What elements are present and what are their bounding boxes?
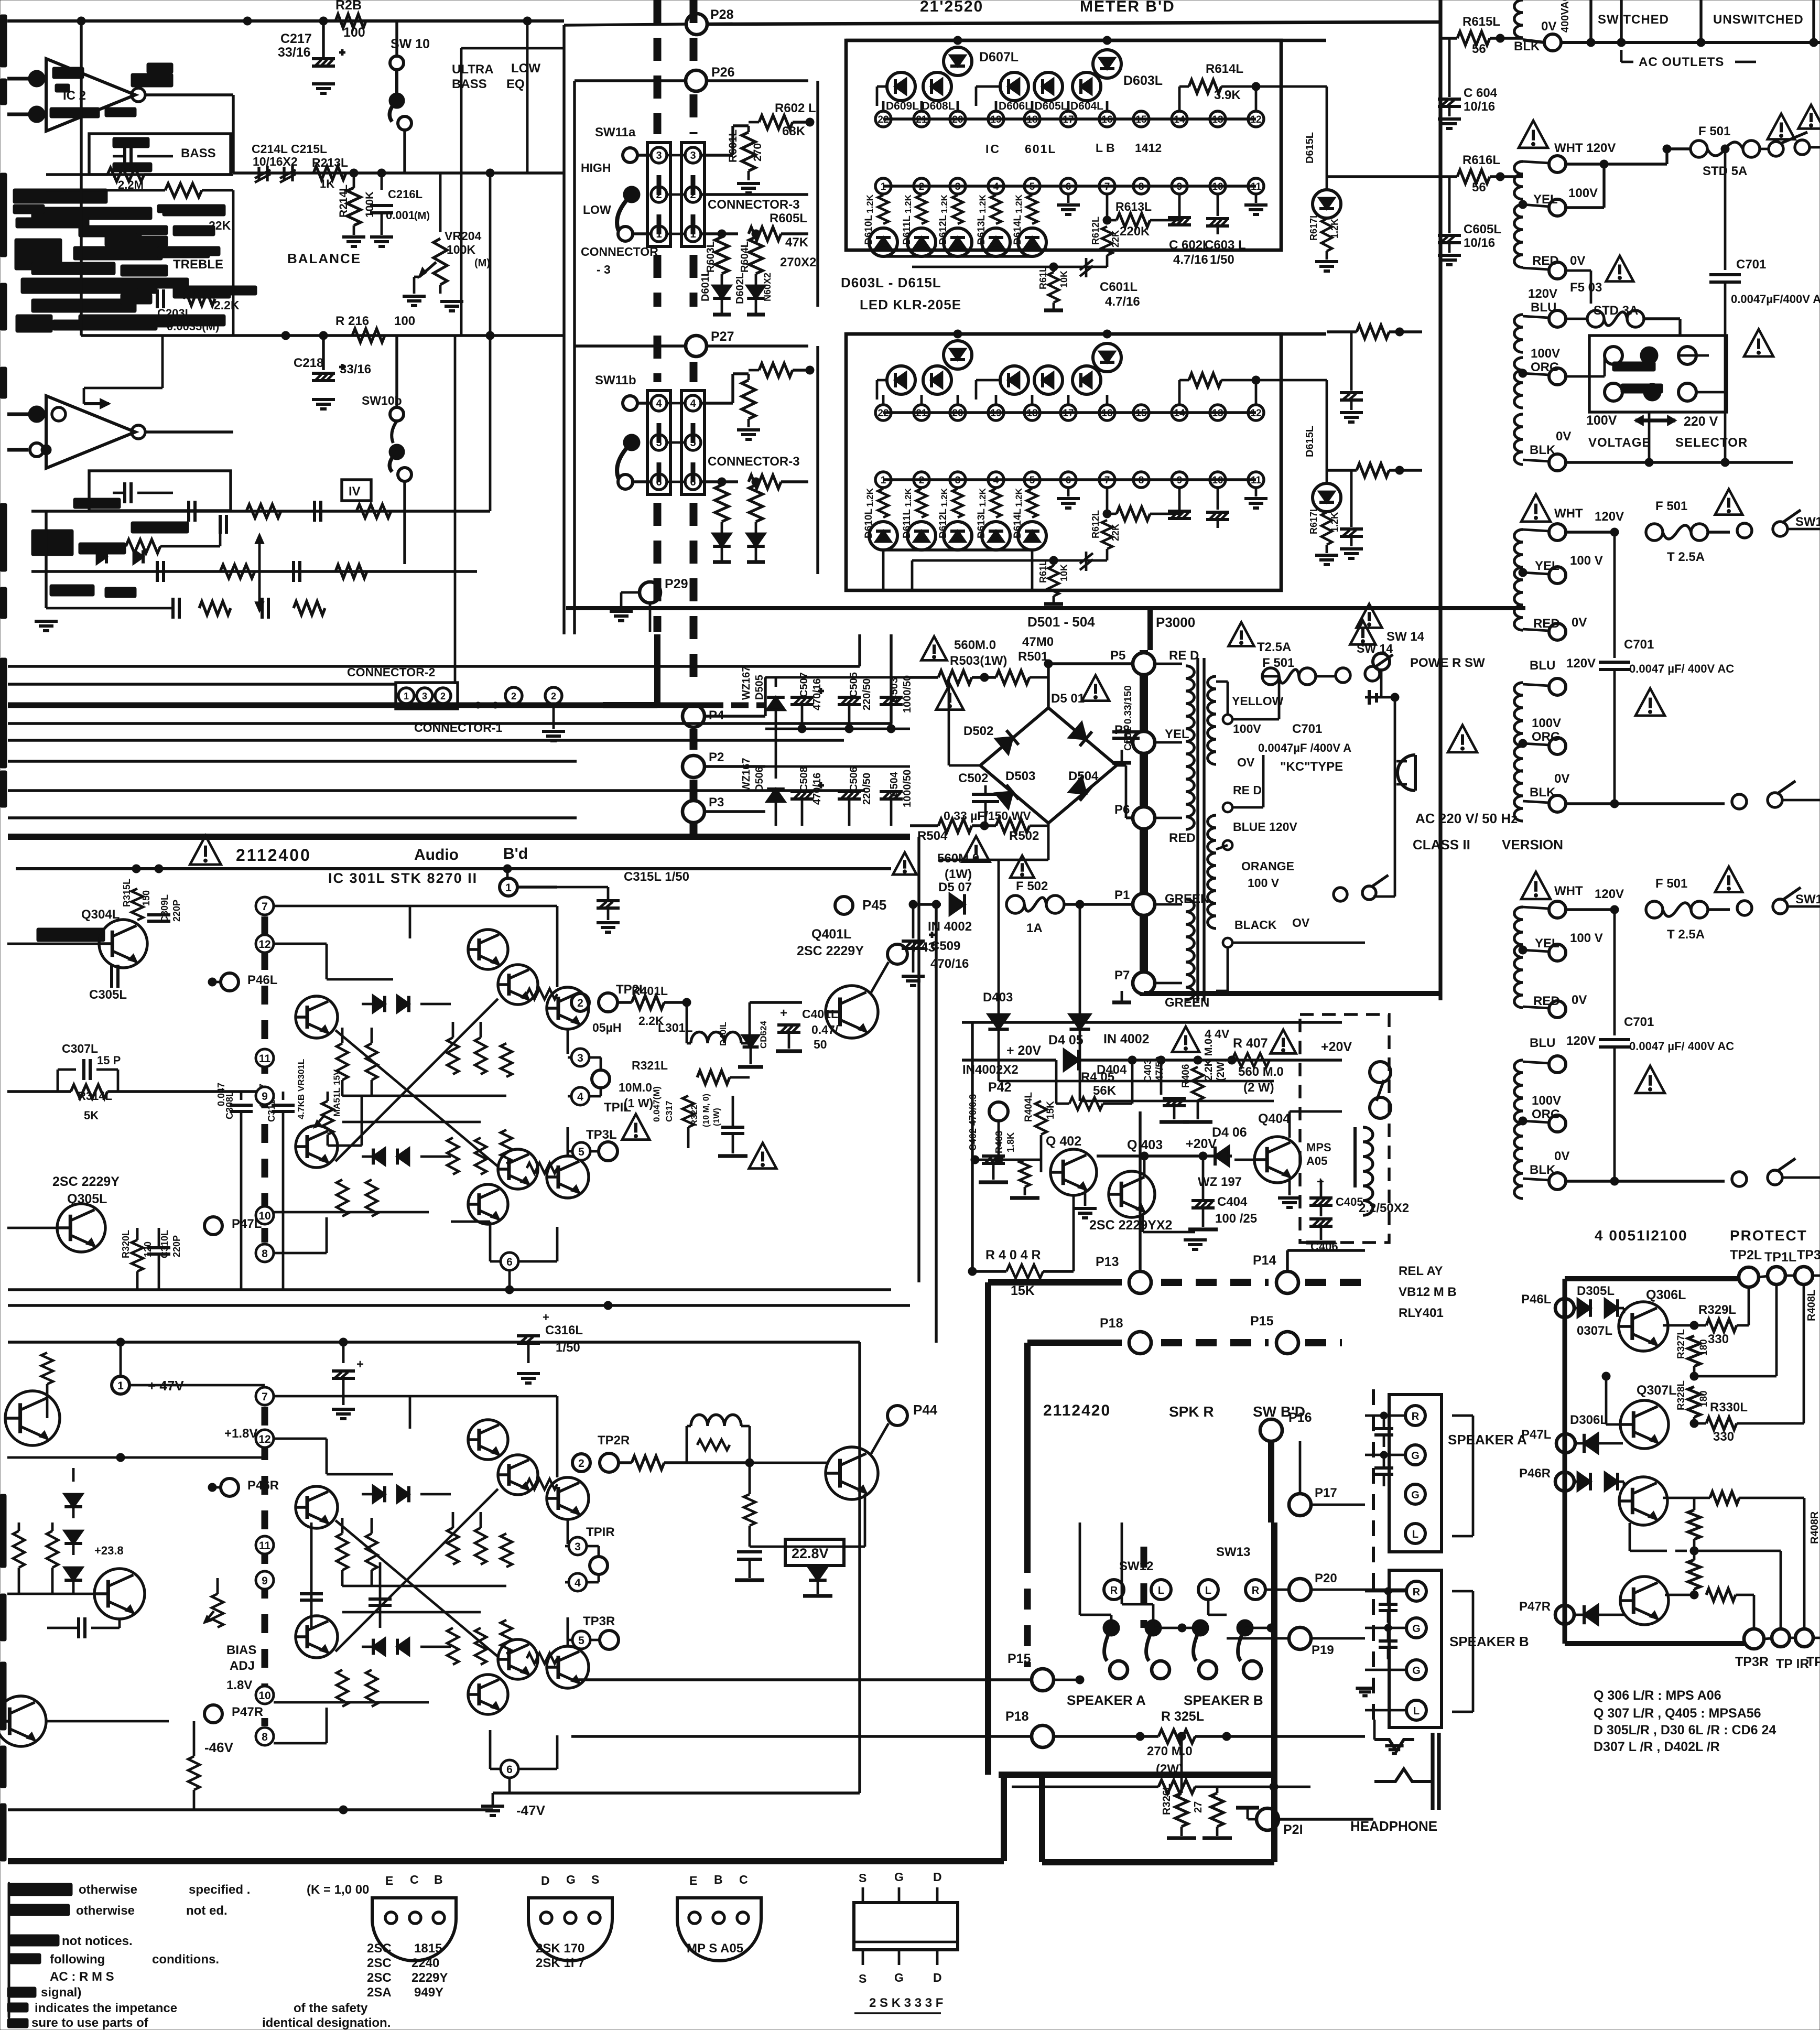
- STK inner transistors lower: [468, 1639, 538, 1714]
- resistor R614L 3.9K: [1179, 62, 1260, 111]
- transformer primary block 1 upper: [1514, 121, 1667, 304]
- IC301 pin column dashes: [262, 1407, 268, 1726]
- connector P5: [1133, 649, 1199, 675]
- svg-text:1.2K: 1.2K: [1014, 194, 1024, 213]
- svg-text:P46L: P46L: [1521, 1292, 1551, 1306]
- svg-text:0V: 0V: [1572, 993, 1587, 1007]
- svg-text:P16: P16: [1288, 1410, 1312, 1425]
- meter pin6 ground: [1057, 194, 1080, 214]
- svg-text:F 502: F 502: [1016, 879, 1048, 893]
- svg-text:D606L D605L D604L: D606L D605L D604L: [999, 100, 1103, 112]
- svg-text:+: +: [356, 1357, 364, 1372]
- svg-text:L: L: [1413, 1705, 1420, 1717]
- connector P46R: [208, 1478, 279, 1496]
- spkr bus P13 P14: [988, 1111, 1365, 1523]
- svg-text:T 2.5A: T 2.5A: [1667, 550, 1705, 564]
- svg-text:180: 180: [1698, 1390, 1709, 1407]
- svg-text:C505: C505: [848, 672, 860, 697]
- svg-text:13: 13: [1212, 408, 1223, 419]
- svg-text:15K: 15K: [1045, 1101, 1056, 1119]
- svg-text:220P: 220P: [171, 900, 182, 922]
- svg-text:indicates the impetance: indicates the impetance: [35, 2001, 177, 2015]
- svg-text:WZ 197: WZ 197: [1198, 1175, 1242, 1189]
- svg-text:560M.0: 560M.0: [937, 851, 979, 866]
- capacitor C701: [1599, 910, 1734, 1181]
- resistor R214L 100K: [338, 173, 376, 246]
- svg-text:+23.8: +23.8: [94, 1544, 124, 1557]
- svg-text:16: 16: [1101, 408, 1112, 419]
- svg-text:AC 220 V/ 50 Hz: AC 220 V/ 50 Hz: [1415, 811, 1518, 826]
- svg-text:D607L: D607L: [979, 50, 1019, 64]
- lower left components: [31, 336, 490, 631]
- svg-text:5: 5: [578, 1146, 584, 1158]
- svg-text:P46L: P46L: [247, 973, 277, 987]
- svg-text:R315L: R315L: [122, 879, 132, 907]
- IC301 pin 7: [256, 897, 274, 915]
- resistor R329L 330: [1694, 1287, 1749, 1346]
- svg-text:2SC 2229YX2: 2SC 2229YX2: [1089, 1218, 1172, 1233]
- svg-text:9: 9: [262, 1090, 268, 1103]
- resistor R330L 330: [1694, 1284, 1804, 1444]
- label AC220V 50Hz: [1413, 811, 1563, 852]
- svg-text:D602L: D602L: [734, 273, 746, 304]
- svg-text:L: L: [1412, 1529, 1418, 1540]
- svg-text:IC 301L STK 8270 II: IC 301L STK 8270 II: [328, 870, 478, 886]
- svg-text:220P: 220P: [171, 1235, 182, 1257]
- svg-text:D307 L /R , D402L /R: D307 L /R , D402L /R: [1594, 1740, 1720, 1754]
- svg-text:2SC 2229Y: 2SC 2229Y: [797, 944, 864, 958]
- svg-text:CD624: CD624: [759, 1021, 768, 1049]
- LED pair D609 D608: [877, 366, 951, 399]
- svg-text:1000/50: 1000/50: [902, 770, 913, 807]
- svg-text:P5: P5: [1110, 649, 1125, 663]
- resistor R327L 180: [1676, 1329, 1709, 1380]
- label D603L-D615L LED KLR-205E: [841, 275, 961, 312]
- svg-text:2SC: 2SC: [367, 1941, 392, 1956]
- capacitor C305L: [89, 944, 127, 1002]
- svg-text:47K: 47K: [785, 235, 809, 250]
- meter pin11 ground: [1244, 194, 1267, 214]
- pin2 TP2R: [274, 1433, 750, 1472]
- svg-text:C309L: C309L: [159, 894, 170, 923]
- svg-text:0307L: 0307L: [1577, 1324, 1612, 1338]
- diode D405 IN4002: [962, 1032, 1342, 1071]
- svg-text:D 305L/R , D30 6L /R : CD6: D 305L/R , D30 6L /R : CD6 24: [1594, 1723, 1776, 1737]
- STK inner transistors upper: [468, 930, 538, 1005]
- svg-text:(M): (M): [474, 257, 490, 269]
- svg-text:D506: D506: [754, 766, 765, 792]
- fuse T2.5A: [1566, 489, 1742, 564]
- svg-text:SELECTOR: SELECTOR: [1675, 436, 1748, 450]
- svg-text:1.8V: 1.8V: [226, 1678, 252, 1692]
- connector P21: [1236, 1808, 1373, 1837]
- svg-text:G: G: [1411, 1489, 1420, 1501]
- svg-text:T 2.5A: T 2.5A: [1667, 927, 1705, 942]
- svg-text:TPIR: TPIR: [586, 1525, 615, 1539]
- svg-text:- 3: - 3: [597, 263, 611, 276]
- bridge connections: [938, 660, 1133, 860]
- svg-text:IV: IV: [349, 484, 361, 499]
- label VOLTAGE SELECTOR: [1586, 413, 1748, 450]
- svg-text:LOW: LOW: [583, 203, 611, 217]
- connector P46R protect: [1519, 1466, 1624, 1491]
- transistor Q306L: [1619, 1288, 1698, 1351]
- svg-text:21'2520: 21'2520: [920, 0, 983, 15]
- transistor Q403: [1074, 1137, 1232, 1249]
- svg-text:(1W): (1W): [712, 1108, 721, 1126]
- svg-text:C501 0.33/150: C501 0.33/150: [1123, 685, 1134, 751]
- STK diodes upper: [362, 1486, 451, 1503]
- box tone outline: [81, 21, 527, 336]
- switch SW: [1737, 888, 1820, 915]
- capacitor C402 470/6.3 resistor R403 1.8K: [968, 1094, 1039, 1198]
- LED D607 top: [944, 47, 1019, 75]
- svg-text:2SK 1l 7: 2SK 1l 7: [536, 1956, 584, 1970]
- svg-text:R617L: R617L: [1308, 506, 1319, 534]
- svg-text:B: B: [434, 1873, 443, 1886]
- transistor Q307R: [1620, 1551, 1694, 1625]
- svg-text:(2W): (2W): [1215, 1059, 1227, 1081]
- svg-text:WHT: WHT: [1554, 506, 1583, 521]
- svg-text:RE D: RE D: [1169, 649, 1199, 663]
- STK inner transistors upper: [468, 1420, 538, 1495]
- resistors R503 R501 upper: [910, 635, 1054, 684]
- svg-text:F 501: F 501: [1655, 877, 1687, 891]
- svg-text:R61L: R61L: [1038, 266, 1048, 289]
- svg-text:2: 2: [919, 475, 925, 486]
- svg-text:47M0: 47M0: [1022, 635, 1054, 649]
- svg-text:EQ: EQ: [506, 77, 525, 91]
- svg-text:11: 11: [1251, 475, 1262, 486]
- connector dashes: [659, 175, 693, 234]
- connector P6: [1114, 803, 1196, 845]
- meter interconnect wires: [808, 81, 1326, 574]
- capacitor C309L 220P: [147, 869, 182, 923]
- speaker caps B: [1365, 1588, 1406, 1659]
- label 2112420 SPKR SW BD: [1043, 1402, 1305, 1420]
- svg-text:S: S: [859, 1871, 866, 1885]
- transformer winding lower: [1514, 656, 1596, 821]
- svg-text:REL AY: REL AY: [1399, 1264, 1443, 1278]
- svg-text:R4 05: R4 05: [1081, 1070, 1114, 1084]
- svg-text:0V: 0V: [1554, 772, 1569, 786]
- resistor R325L 270M0 2W: [1136, 1709, 1365, 1776]
- svg-text:RED: RED: [1169, 831, 1196, 845]
- svg-text:8: 8: [1139, 475, 1144, 486]
- svg-text:D612L: D612L: [938, 215, 949, 245]
- svg-text:0V: 0V: [1541, 19, 1556, 34]
- svg-text:D: D: [933, 1870, 942, 1884]
- svg-text:2112400: 2112400: [236, 846, 311, 865]
- svg-text:1A: 1A: [1026, 921, 1043, 935]
- svg-text:4.7/16: 4.7/16: [1173, 253, 1208, 267]
- svg-text:D611L: D611L: [902, 215, 913, 245]
- svg-text:7: 7: [262, 901, 268, 913]
- svg-text:Audio: Audio: [414, 846, 459, 863]
- svg-text:1.2K: 1.2K: [939, 488, 949, 507]
- svg-text:470/16: 470/16: [811, 773, 823, 805]
- svg-text:IN 4002: IN 4002: [928, 920, 972, 934]
- svg-text:C701: C701: [1292, 722, 1322, 736]
- svg-text:R321L: R321L: [632, 1059, 668, 1072]
- STK output transistor lower: [547, 1156, 589, 1198]
- svg-text:1412: 1412: [1135, 141, 1162, 155]
- speaker A terminal box: [1389, 1395, 1442, 1552]
- svg-text:0.001: 0.001: [386, 209, 415, 222]
- svg-text:HEADPHONE: HEADPHONE: [1350, 1818, 1437, 1834]
- svg-text:C203L: C203L: [157, 307, 192, 320]
- svg-text:18: 18: [1026, 408, 1037, 419]
- svg-text:P17: P17: [1315, 1486, 1337, 1500]
- svg-text:SPEAKER B: SPEAKER B: [1449, 1634, 1529, 1649]
- svg-text:2: 2: [577, 997, 583, 1009]
- svg-text:19: 19: [990, 114, 1001, 125]
- svg-text:8: 8: [262, 1248, 268, 1260]
- svg-text:TP lR: TP lR: [1776, 1657, 1809, 1671]
- svg-text:METER B'D: METER B'D: [1080, 0, 1175, 15]
- capacitor C218 33/16: [294, 336, 371, 409]
- jumper LOW: [617, 186, 651, 241]
- svg-text:WZ167: WZ167: [741, 758, 752, 792]
- svg-text:100 V: 100 V: [1570, 931, 1603, 945]
- svg-text:IC: IC: [985, 142, 1001, 156]
- svg-text:4: 4: [690, 398, 696, 409]
- svg-text:120V: 120V: [1595, 510, 1624, 524]
- svg-text:D613L: D613L: [976, 215, 987, 245]
- svg-text:1000/50: 1000/50: [902, 675, 913, 713]
- relay labels: [1399, 1264, 1457, 1320]
- bottom rail and switch: [1566, 1159, 1820, 1186]
- connector P20: [1265, 1571, 1406, 1601]
- svg-text:C216L: C216L: [388, 188, 422, 201]
- svg-text:(M): (M): [414, 210, 430, 222]
- svg-text:330: 330: [1708, 1332, 1729, 1346]
- P3000 dashed bus: [1144, 650, 1442, 996]
- svg-text:C508: C508: [798, 766, 810, 792]
- fuse F501 STD 5A: [1663, 105, 1820, 178]
- svg-text:sure to use parts of: sure to use parts of: [31, 2016, 149, 2030]
- connector-1 pins: [414, 687, 565, 741]
- resistors R504 R502 lower: [893, 819, 1048, 881]
- resistor RR3 vertical: [41, 1353, 53, 1418]
- capacitor C216L 0.001: [370, 173, 430, 246]
- svg-text:7: 7: [262, 1391, 268, 1403]
- svg-text:C310L: C310L: [159, 1230, 170, 1258]
- connector pin 1: [651, 226, 701, 242]
- svg-text:1K: 1K: [320, 177, 334, 190]
- svg-text:17: 17: [1063, 408, 1074, 419]
- svg-text:R501: R501: [1018, 650, 1048, 664]
- STK resistors upper: [337, 1518, 512, 1586]
- diode D401L CD624 C401L: [718, 980, 839, 1067]
- svg-text:BLACK: BLACK: [1234, 918, 1277, 932]
- svg-text:C214L C215L: C214L C215L: [252, 142, 327, 156]
- svg-text:22: 22: [877, 114, 889, 125]
- svg-text:1.2K: 1.2K: [903, 194, 913, 213]
- svg-text:D603L: D603L: [1123, 73, 1163, 88]
- svg-text:otherwise: otherwise: [79, 1883, 137, 1897]
- svg-text:68K: 68K: [782, 124, 806, 138]
- transformer winding upper: [1514, 524, 1603, 640]
- inductor L301R and caps: [687, 1414, 865, 1596]
- svg-text:P47L: P47L: [1521, 1428, 1551, 1442]
- label AC OUTLETS: [1621, 50, 1756, 69]
- svg-text:TP2: TP2: [1806, 1655, 1820, 1669]
- svg-text:P6: P6: [1114, 803, 1130, 817]
- svg-text:100V: 100V: [1532, 1094, 1561, 1108]
- meter lower resistors and LEDs: [863, 488, 1046, 550]
- IC301 pin1 R +47V: [112, 1342, 265, 1394]
- STK output wires: [527, 906, 577, 1173]
- svg-text:1.2K: 1.2K: [903, 488, 913, 507]
- svg-text:C601L: C601L: [1100, 280, 1137, 294]
- svg-text:following: following: [50, 1952, 105, 1967]
- STK crossing wires: [274, 1396, 506, 1743]
- svg-text:2: 2: [578, 1457, 584, 1470]
- svg-text:-47V: -47V: [516, 1802, 546, 1818]
- wire mid rail: [233, 169, 564, 177]
- svg-text:P18: P18: [1005, 1709, 1029, 1724]
- capacitor C308L 0.047: [216, 1083, 253, 1290]
- svg-text:1.2K: 1.2K: [865, 488, 875, 507]
- label IV boxed: [342, 480, 371, 501]
- connector P1: [1114, 888, 1209, 915]
- R channel top rail: [8, 1338, 860, 1346]
- svg-text:C506: C506: [848, 766, 860, 792]
- svg-text:12: 12: [1250, 408, 1261, 419]
- STK output transistor upper: [547, 987, 589, 1029]
- transistor Q401L 2SC2229Y: [797, 927, 935, 1081]
- svg-text:2SK 170: 2SK 170: [536, 1941, 584, 1956]
- svg-text:R406: R406: [1180, 1064, 1191, 1088]
- svg-text:R404L: R404L: [1023, 1092, 1034, 1122]
- LED trio D606 D605 D604: [976, 72, 1103, 112]
- svg-text:C307L: C307L: [62, 1042, 98, 1055]
- svg-text:949Y: 949Y: [414, 1985, 443, 2000]
- svg-text:270X2: 270X2: [780, 255, 816, 269]
- transistor QR upper left: [5, 1391, 60, 1445]
- resistor R328L 180: [1676, 1380, 1709, 1428]
- svg-text:R612L: R612L: [1090, 217, 1101, 245]
- resistor R326L 27: [1161, 1732, 1204, 1838]
- connector P46L protect: [1521, 1284, 1624, 1338]
- svg-text:1815: 1815: [414, 1941, 442, 1956]
- svg-text:R322: R322: [689, 1105, 699, 1126]
- svg-text:10M.0: 10M.0: [619, 1081, 652, 1094]
- svg-text:C: C: [739, 1873, 748, 1886]
- resistor R404R 15K: [968, 1195, 1074, 1298]
- capacitor C701: [1599, 532, 1734, 804]
- svg-text:3.9K: 3.9K: [1214, 88, 1241, 102]
- switch SW11: [595, 373, 651, 411]
- svg-text:4: 4: [993, 475, 999, 486]
- svg-text:D615L: D615L: [1304, 426, 1316, 457]
- svg-text:100V: 100V: [1532, 716, 1561, 730]
- svg-text:TP3R: TP3R: [583, 1614, 615, 1628]
- svg-text:15K: 15K: [1011, 1283, 1035, 1298]
- svg-text:P13: P13: [1096, 1255, 1119, 1269]
- svg-text:2.2K M.0: 2.2K M.0: [1203, 1039, 1215, 1081]
- svg-text:1: 1: [117, 1380, 124, 1392]
- svg-text:R61L: R61L: [1038, 560, 1048, 583]
- capacitor C317 R322: [652, 1086, 776, 1169]
- svg-text:MA51L 15V: MA51L 15V: [332, 1069, 342, 1117]
- svg-text:0V: 0V: [1556, 429, 1571, 444]
- pot VR301L 4.7KB: [265, 1059, 362, 1146]
- BIAS ADJ labels: [226, 1643, 256, 1692]
- connector pin 3: [651, 147, 701, 163]
- connector pin 6: [651, 474, 701, 490]
- spkr inner dashed buses: [1027, 1547, 1144, 1667]
- svg-text:SW11b: SW11b: [595, 373, 636, 387]
- R channel extra caps and wires: [7, 1453, 392, 1628]
- protect left bus: [1563, 1279, 1567, 1644]
- svg-text:8: 8: [262, 1731, 268, 1743]
- svg-text:R2B: R2B: [335, 0, 362, 13]
- resistor R314L 5K: [7, 1085, 265, 1122]
- LED trio D606 D605 D604: [976, 366, 1101, 399]
- transistor Q-R mid: [0, 1544, 145, 1746]
- svg-text:6: 6: [506, 1764, 513, 1776]
- fuse F503 STD 3A: [1566, 256, 1680, 336]
- STK inner transistors lower: [468, 1149, 538, 1224]
- svg-text:not notices.: not notices.: [62, 1934, 133, 1948]
- LED D607 top: [944, 341, 972, 369]
- svg-text:R604L: R604L: [739, 241, 751, 273]
- svg-text:22: 22: [877, 408, 889, 419]
- svg-text:VR204: VR204: [445, 229, 482, 243]
- svg-text:D502: D502: [963, 724, 993, 738]
- svg-text:D: D: [541, 1874, 550, 1887]
- svg-text:1.2K: 1.2K: [1014, 488, 1024, 507]
- svg-text:Q306L: Q306L: [1646, 1288, 1686, 1302]
- svg-text:11: 11: [1251, 181, 1262, 192]
- svg-text:15: 15: [1135, 114, 1147, 125]
- switch SW14 power: [1357, 604, 1485, 755]
- svg-text:MPS: MPS: [1306, 1141, 1331, 1154]
- STK diodes upper: [362, 996, 451, 1012]
- protect notes text: [1594, 1688, 1776, 1754]
- IC301 pin 10: [256, 1686, 274, 1704]
- label -46V and resistor: [46, 1721, 234, 1810]
- resistor R613L 220K: [1103, 194, 1179, 239]
- svg-text:5K: 5K: [84, 1109, 99, 1122]
- svg-text:1.2K: 1.2K: [1329, 512, 1340, 532]
- svg-text:Q401L: Q401L: [811, 927, 851, 942]
- svg-text:2.2/50X2: 2.2/50X2: [1359, 1201, 1409, 1215]
- power block top border: [1147, 608, 1153, 650]
- svg-text:OV: OV: [1237, 755, 1255, 769]
- svg-text:F 501: F 501: [1698, 124, 1730, 138]
- svg-text:0.0035(M): 0.0035(M): [167, 320, 219, 333]
- svg-text:22K: 22K: [209, 219, 231, 232]
- voltage selector: [1566, 336, 1727, 462]
- svg-text:1/50: 1/50: [1210, 253, 1234, 267]
- rotated right edge labels: [1806, 1290, 1820, 1544]
- svg-text:SW13: SW13: [1216, 1545, 1250, 1559]
- transformer winding lower: [1514, 1034, 1596, 1198]
- svg-text:F5 03: F5 03: [1570, 280, 1602, 295]
- svg-text:G: G: [1412, 1665, 1421, 1677]
- transformer primary winding: [1208, 676, 1310, 947]
- svg-text:2: 2: [919, 181, 925, 192]
- svg-text:TPIL: TPIL: [604, 1100, 631, 1115]
- svg-text:2.2K: 2.2K: [214, 298, 240, 312]
- svg-text:20: 20: [952, 408, 963, 419]
- pot bias adj: [204, 1578, 223, 1641]
- IC301 pin column dashes: [262, 916, 268, 1243]
- svg-text:D306L: D306L: [1570, 1413, 1608, 1427]
